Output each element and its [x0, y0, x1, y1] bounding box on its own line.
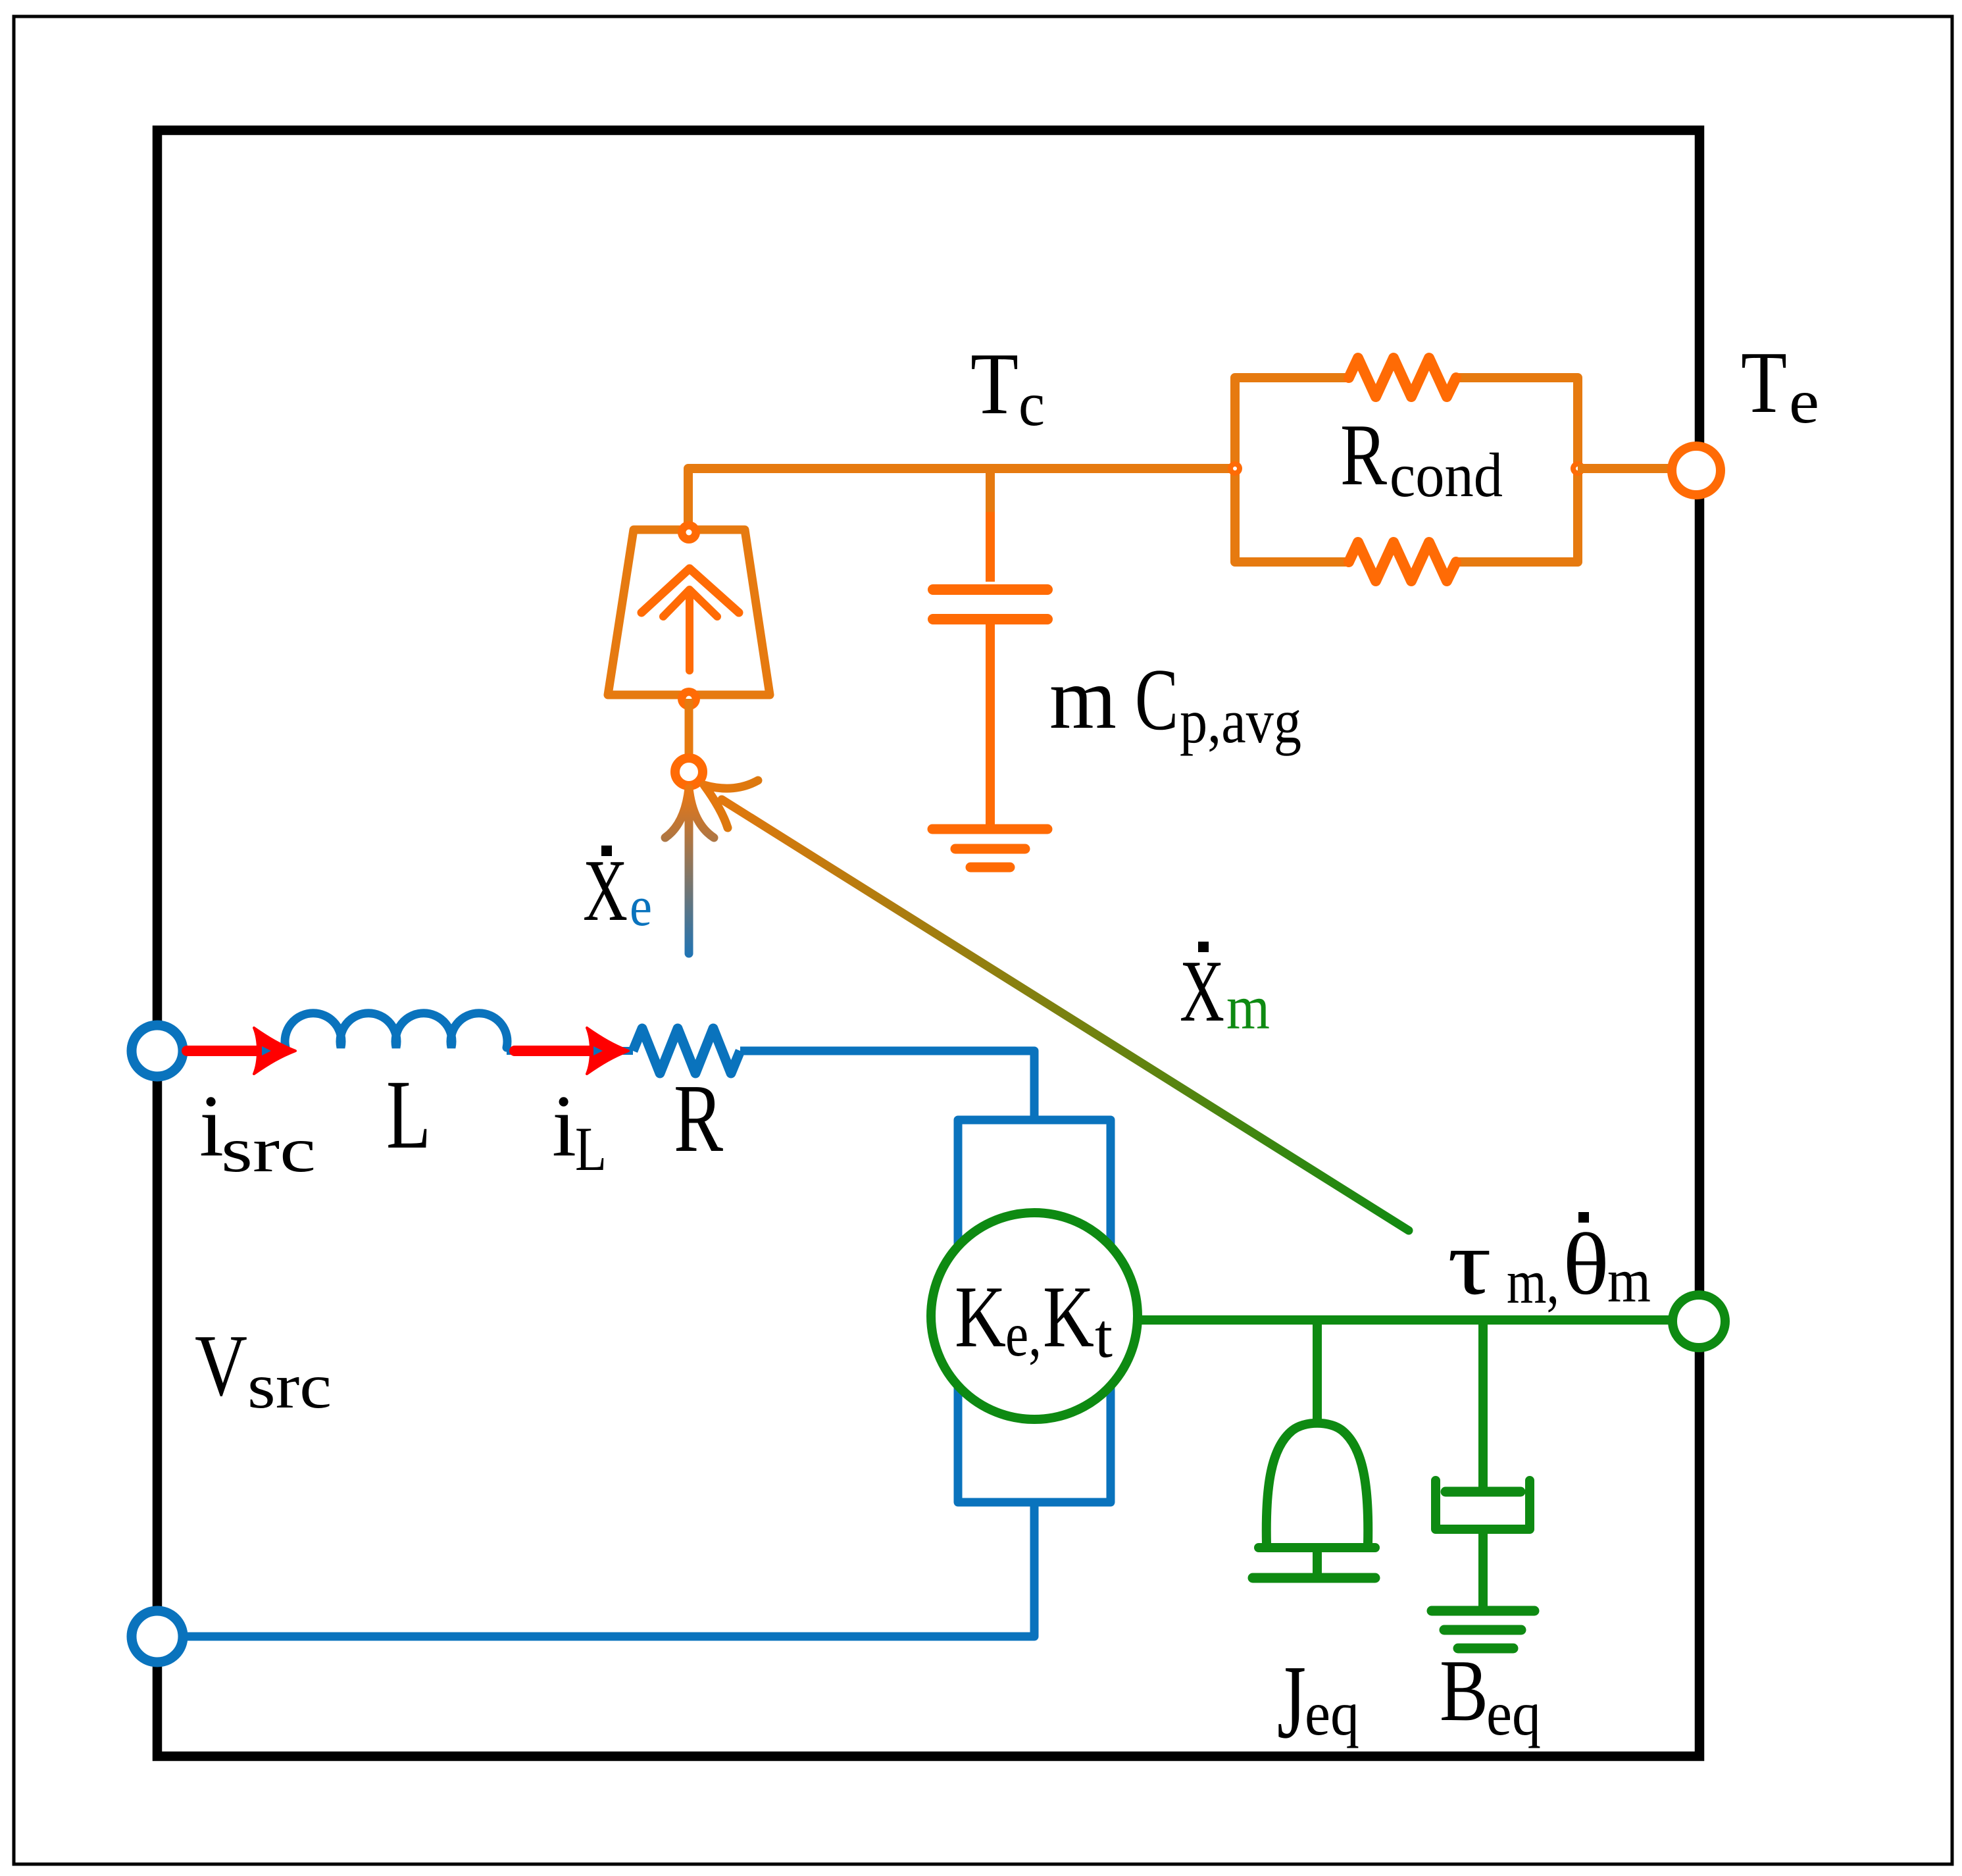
terminal Vsrc top: [132, 1025, 183, 1077]
svg-text:t: t: [1095, 1301, 1113, 1371]
svg-text:m: m: [1226, 973, 1270, 1042]
svg-text:X: X: [583, 842, 628, 939]
svg-text:i: i: [552, 1077, 576, 1175]
svg-text:J: J: [1277, 1643, 1306, 1760]
ground Beq: [1432, 1611, 1534, 1648]
wire from source terminal: [170, 1047, 286, 1055]
damper Beq piston: [1446, 1487, 1521, 1497]
svg-text:cond: cond: [1390, 440, 1503, 510]
svg-text:m: m: [1049, 649, 1117, 747]
wire motor bottom return: [181, 1502, 1034, 1636]
heat source arrow chevron inner: [663, 590, 717, 617]
svg-text:e: e: [630, 875, 652, 938]
svg-text:V: V: [195, 1317, 247, 1414]
svg-text:C: C: [1135, 651, 1178, 748]
svg-text:m,: m,: [1507, 1247, 1559, 1317]
resistor Rcond top: [1349, 358, 1456, 397]
svg-text:L: L: [386, 1060, 431, 1169]
svg-text:τ: τ: [1447, 1210, 1492, 1314]
resistor Rcond bottom: [1349, 542, 1456, 581]
wire L to R: [507, 1047, 633, 1055]
wire to Te: [1578, 464, 1669, 473]
terminal torque node: [1673, 1295, 1725, 1348]
svg-text:L: L: [575, 1114, 607, 1184]
inductor L: [285, 1013, 507, 1048]
heat source arrow shaft: [686, 592, 693, 671]
terminal Vsrc bottom: [132, 1611, 183, 1662]
motor housing rectangle: [958, 1120, 1111, 1502]
svg-text:X: X: [1180, 942, 1224, 1040]
heat flow source trapezoid: [608, 530, 770, 695]
svg-text:p,avg: p,avg: [1180, 686, 1301, 756]
inner system boundary box: [157, 130, 1699, 1756]
arrow Xdot_e (blue to orange gradient): [665, 788, 714, 953]
svg-text:eq: eq: [1486, 1679, 1541, 1748]
damper Beq lead: [1478, 1533, 1488, 1606]
svg-text:src: src: [247, 1351, 332, 1421]
ground thermal: [932, 829, 1047, 867]
damper Beq cup: [1436, 1481, 1530, 1529]
svg-text:src: src: [221, 1115, 316, 1185]
svg-text:R: R: [674, 1065, 723, 1173]
wire motor shaft: [1138, 1315, 1669, 1325]
current arrow i_src: [187, 1046, 258, 1056]
capacitor m Cp,avg plates: [933, 590, 1047, 619]
svg-text:m: m: [1607, 1246, 1651, 1315]
arrow Xdot_m (orange to green gradient): [704, 780, 1409, 1230]
wire Tc node horizontal: [688, 469, 1235, 533]
svg-text:B: B: [1440, 1642, 1488, 1739]
svg-text:K: K: [955, 1268, 1006, 1365]
svg-text:T: T: [1741, 334, 1787, 431]
wire capacitor stub: [986, 469, 995, 512]
svg-text:i: i: [199, 1077, 224, 1175]
motor circle Ke,Kt: [931, 1213, 1138, 1419]
ground Jeq: [1253, 1573, 1375, 1583]
wire below trapezoid: [685, 699, 693, 754]
svg-text:e: e: [1789, 367, 1819, 436]
capacitor lead bottom: [986, 624, 995, 824]
svg-text:eq: eq: [1305, 1679, 1359, 1748]
svg-text:θ: θ: [1563, 1215, 1609, 1313]
junction dot right: [1571, 461, 1585, 476]
wire Jeq stub: [1313, 1320, 1322, 1427]
wire Rcond loop: [1235, 378, 1578, 562]
svg-text:K: K: [1043, 1268, 1094, 1365]
heat source arrow chevron outer: [641, 569, 739, 613]
terminal dot bottom of trapezoid: [678, 688, 700, 710]
svg-text:e,: e,: [1005, 1300, 1042, 1369]
svg-text:c: c: [1019, 369, 1045, 439]
junction dot left: [1228, 461, 1242, 476]
wire Beq stub: [1478, 1320, 1488, 1488]
wire R to motor: [740, 1051, 1034, 1120]
inertia Jeq pedestal stub: [1313, 1552, 1322, 1574]
terminal dot top of trapezoid: [678, 521, 700, 544]
svg-text:T: T: [970, 335, 1019, 432]
svg-text:R: R: [1340, 406, 1387, 503]
current arrow i_L: [515, 1046, 593, 1056]
resistor R: [633, 1028, 740, 1073]
inertia Jeq dome: [1267, 1423, 1369, 1544]
node Xdot (open circle): [675, 758, 703, 786]
capacitor C lead top: [986, 512, 995, 582]
terminal Te: [1672, 446, 1721, 495]
